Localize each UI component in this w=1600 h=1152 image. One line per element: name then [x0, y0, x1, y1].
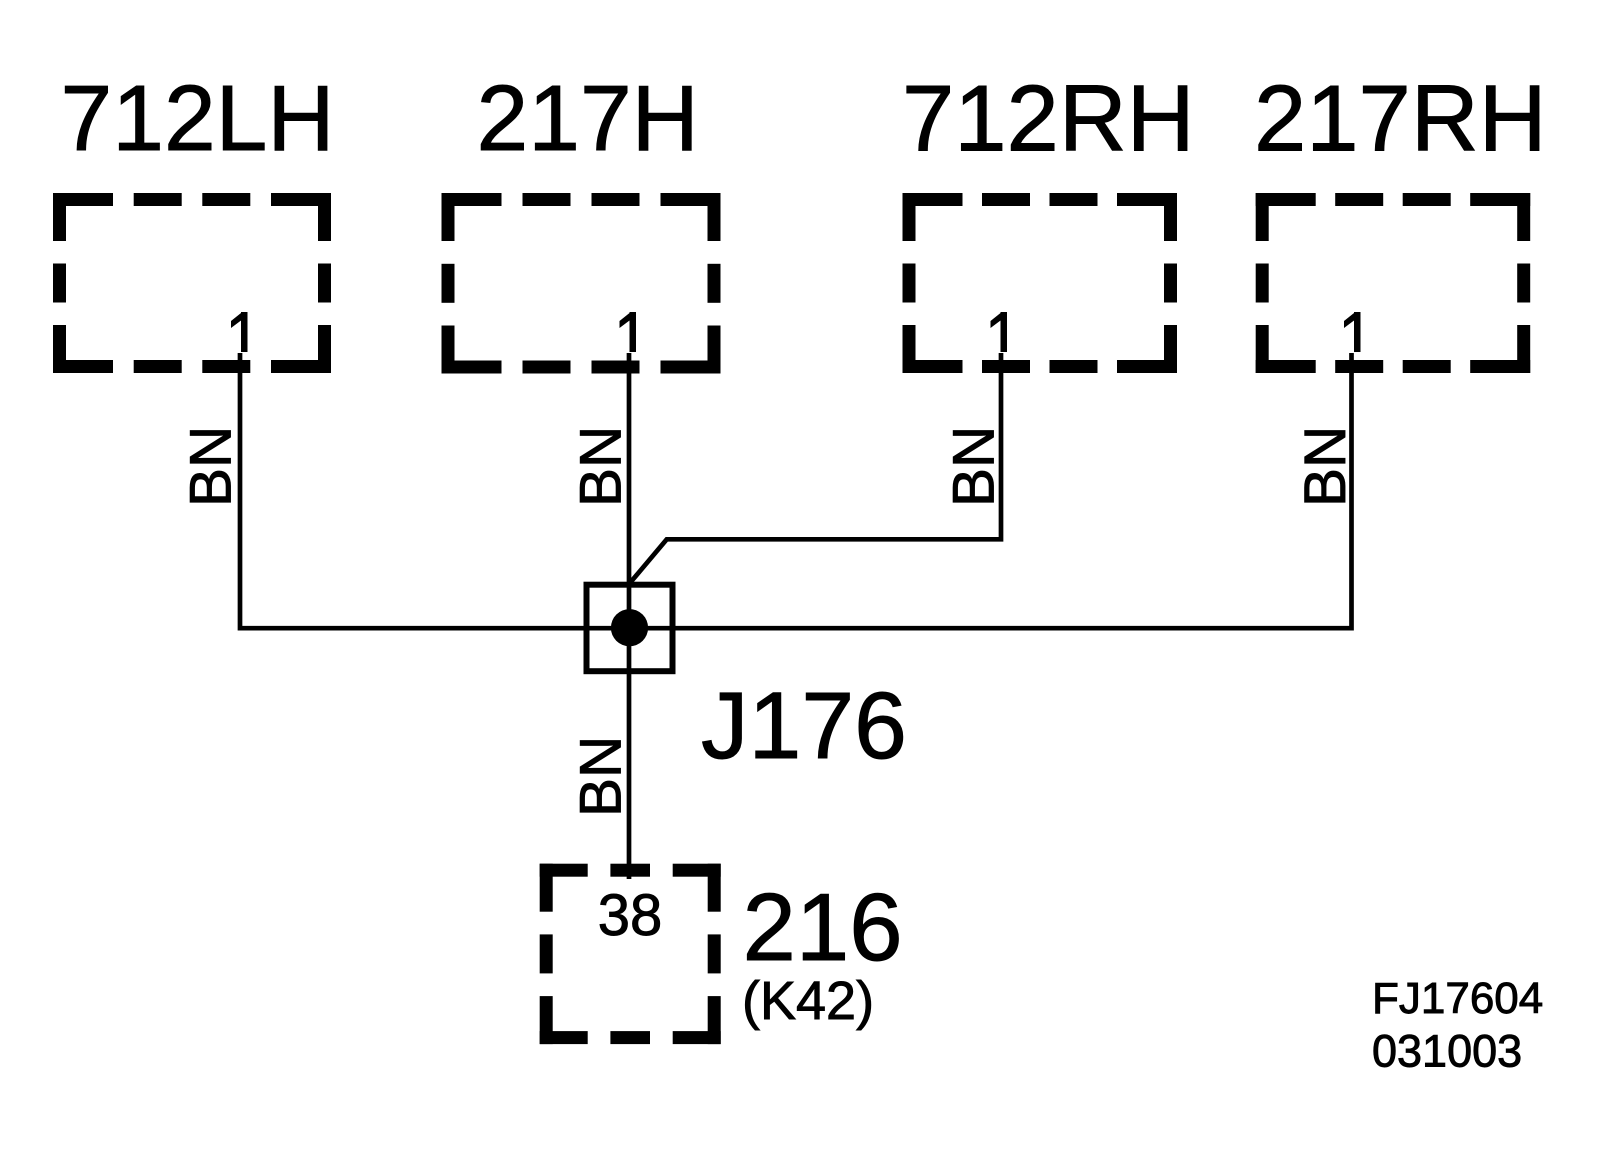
pin 1 of 217H	[620, 312, 637, 352]
wire BN from 712LH pin 1 down, bus to 217RH pin 1	[240, 353, 1352, 628]
svg-text:BN: BN	[179, 426, 244, 507]
connector 217H (dashed box)	[442, 193, 721, 374]
junction J176 square symbol	[587, 585, 673, 672]
connector 712LH (dashed box)	[53, 193, 331, 373]
svg-text:031003: 031003	[1372, 1026, 1522, 1077]
pin 1 of 217RH	[1344, 312, 1361, 352]
connector 712RH (dashed box)	[903, 193, 1178, 373]
svg-text:(K42): (K42)	[742, 971, 874, 1031]
pin 1 of 712RH	[991, 312, 1008, 352]
junction J176 solder dot	[611, 609, 648, 646]
connector 216 (dashed box)	[540, 864, 721, 1044]
svg-text:712RH: 712RH	[902, 66, 1195, 171]
svg-text:38: 38	[598, 883, 663, 948]
svg-text:BN: BN	[569, 736, 634, 817]
wire BN from 217H pin 1 down through junction to 216 pin 38	[627, 353, 632, 879]
svg-text:BN: BN	[1293, 426, 1358, 507]
connector 217RH (dashed box)	[1256, 193, 1531, 373]
svg-text:217RH: 217RH	[1254, 66, 1547, 171]
svg-text:217H: 217H	[477, 66, 699, 170]
svg-text:J176: J176	[701, 673, 907, 779]
pin 1 of 712LH	[231, 312, 248, 352]
svg-text:BN: BN	[569, 426, 634, 507]
svg-text:712LH: 712LH	[61, 66, 335, 170]
svg-text:216: 216	[743, 874, 903, 981]
wire BN from 712RH pin 1 down, left, diagonal into junction	[630, 353, 1002, 584]
svg-text:FJ17604: FJ17604	[1372, 974, 1543, 1023]
svg-text:BN: BN	[942, 426, 1007, 507]
